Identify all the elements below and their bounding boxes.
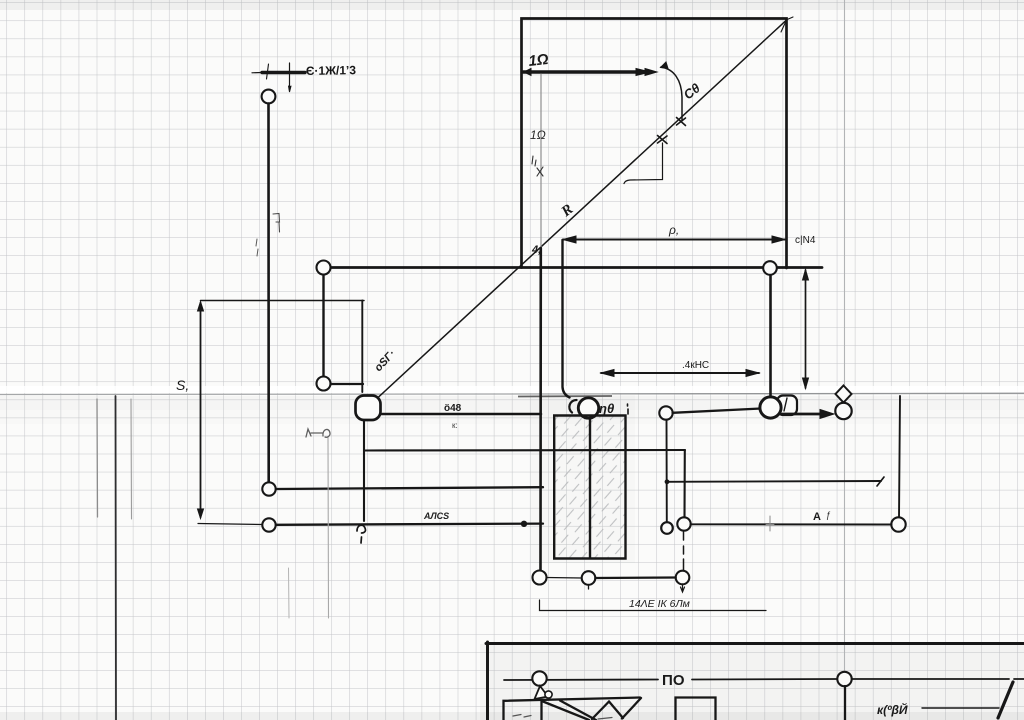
dimension bar T1 above node A [252,63,305,92]
svg-text:Є·1Ж/1’3: Є·1Ж/1’3 [306,63,357,78]
wire below node F [363,420,365,521]
node M circle bottom row [582,571,596,585]
dashed wire below node G [683,532,685,570]
big rectangle top [522,19,787,269]
node D circle [317,261,331,275]
pencil squiggle [306,429,330,437]
dimension arrow 1R top [523,69,657,76]
slash mark [998,682,1013,718]
svg-text:.4кHC: .4кHC [682,360,709,371]
wire C to right [276,524,543,525]
node Q circle on bus [837,672,851,686]
pencil vertical x541 upper [540,74,542,248]
tiny tick marks left of wire [256,239,258,256]
vertical dimension right with arrows [803,270,809,389]
wire node F to x541 [379,413,541,416]
wire from node I down to node H [666,420,668,523]
svg-text:ö48: ö48 [444,403,462,414]
svg-text:1Ω: 1Ω [528,51,550,70]
node L circle bottom row [533,571,547,585]
pump circle [760,397,781,418]
svg-text:ΠО: ΠО [662,672,685,689]
svg-text:c|N4: c|N4 [795,235,816,246]
wire x541 mid (dark) [539,248,542,570]
tick marks in box [513,715,531,718]
wire from label to slash [922,707,999,709]
thick arrow pump to valve pair [782,410,834,419]
valve node circle [578,398,598,418]
svg-text:A: A [813,511,821,523]
pencil vertical mid [327,437,330,618]
svg-text:к(ºβЙ: к(ºβЙ [877,701,908,717]
wire x770 from node J down to pump [769,275,772,398]
truss box right [676,698,716,720]
diamond of valve pair [836,386,852,403]
wire y481 with end tick [665,477,884,486]
wire E to right [331,383,364,385]
wire from node A down [267,104,270,483]
bracket mark on wire [273,214,280,233]
wire from S-line corner down to node F [361,301,363,393]
pump tab [777,396,797,416]
bowtie mark 1 [677,118,686,126]
wire vertical between node D and E [322,274,324,377]
bottom panel top edge [486,642,1024,645]
svg-text:ηθ: ηθ [599,401,614,416]
circle of valve pair [835,403,851,419]
wire x562 down from P [563,240,570,398]
wire below node Q [844,686,846,720]
node K circle [891,517,905,531]
bus wire in bottom panel [504,679,1024,680]
wire y450 long [364,449,685,452]
faint tick x770 on wire [766,516,774,531]
dimension S vertical with arrows [198,301,365,519]
bowtie mark 2 on diagonal [658,136,668,144]
pencil vertical line 2 (dark, full height) [115,396,118,720]
node G circle [677,517,690,530]
fold crease horizontal [0,393,1024,396]
truss box left [504,698,642,720]
svg-text:ρ,: ρ, [668,223,679,237]
wires bottom row [547,577,582,580]
truss diagonals [543,702,589,720]
wire x685 down [683,450,685,518]
pencil vertical line 1 [96,399,99,517]
wire main horizontal y267 [331,266,823,269]
wire y524 right segment [691,523,892,525]
arrow hook at diagonal top [777,17,793,32]
pencil vertical line 3 [130,399,133,519]
arrow below node N [681,585,685,593]
bottom panel left edge [486,642,489,720]
colon mark [627,404,630,414]
node E circle [317,377,331,391]
figure below node P [535,686,549,699]
thin wire left of node C [198,524,262,525]
pump tab inner tick [784,398,787,411]
node H small circle [661,522,673,534]
node B circle lower left [262,482,275,495]
wire B to right [276,487,543,489]
node F rounded square [356,396,381,421]
node N circle bottom row [676,571,690,585]
fold crease vertical [844,0,846,720]
hatched box fill [554,417,625,559]
pencil vertical mid 2 [288,568,291,618]
svg-text:ƒ: ƒ [826,510,831,520]
node J circle [763,261,777,275]
dimension 4HC arrows [601,370,759,377]
svg-text:1Ω: 1Ω [530,128,546,142]
node A circle [262,90,276,104]
dimension P arrows [563,236,785,243]
small arrow at curve start [661,62,669,69]
node I circle [659,406,672,419]
wire x900 down [899,396,900,518]
junction dot [521,521,527,527]
stub below node M [588,585,590,589]
node C circle [262,518,275,531]
tick marks below label [532,156,543,176]
step from bowtie2 [624,143,663,184]
hatched box divider [589,418,591,558]
C arc left of valve node [569,400,576,413]
squiggle at wire bottom [357,525,365,543]
main diagonal [378,20,787,398]
curve from arrow to diagonal [661,67,682,120]
svg-text:к:: к: [452,421,458,430]
wire node I to pump [673,409,762,413]
node P circle on bus [532,671,546,685]
bracket under group [540,600,767,611]
svg-text:S,: S, [176,377,189,393]
hatched box outline [554,416,625,559]
svg-text:14ΛE ІК 6Лм: 14ΛE ІК 6Лм [629,598,690,610]
svg-text:AЛCS: AЛCS [423,511,449,521]
